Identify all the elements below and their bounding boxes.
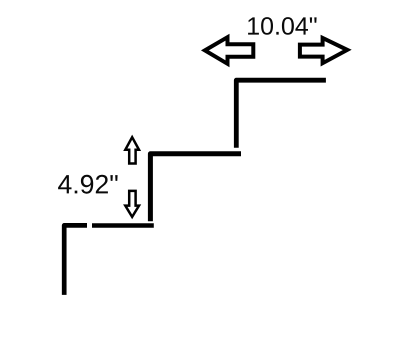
label 4.92 inches <box>58 175 118 194</box>
left block arrow (tread width marker) <box>205 37 253 64</box>
stair step 2 (middle riser + tread) <box>150 154 241 221</box>
right block arrow (tread width marker) <box>300 38 347 63</box>
down block arrow (riser height marker) <box>125 191 139 217</box>
stair step 1 (bottom riser + left part of tread) <box>64 225 87 295</box>
stair step 1 tread right segment (after gap) <box>92 223 154 228</box>
up block arrow (riser height marker) <box>125 137 139 163</box>
stair step 3 (top riser + tread) <box>236 80 326 148</box>
label 10.04 inches <box>248 17 317 35</box>
